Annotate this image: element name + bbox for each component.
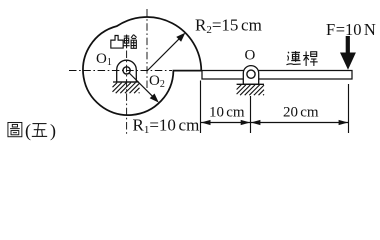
wire: vertical centerline through O2: [146, 9, 148, 88]
pin circle O1: [123, 67, 130, 74]
ground hatching under O: [236, 84, 238, 86]
force arrow F: [346, 36, 350, 54]
dimension line 10cm: [201, 122, 251, 124]
label lever (lian): [286, 51, 300, 65]
svg-text:): ): [50, 121, 56, 142]
dimension line 20cm: [251, 122, 349, 124]
R2 radius arrow: [147, 35, 183, 71]
wire: horizontal centerline through O1 and O2: [69, 70, 172, 72]
svg-text:20cm: 20cm: [283, 105, 319, 121]
lever bar (連桿): [202, 71, 352, 80]
svg-text:O: O: [245, 48, 256, 64]
caption figure (tu): [8, 122, 22, 136]
extension line at contact point: [200, 81, 202, 134]
label lever (gan): [303, 51, 318, 66]
extension line at force point: [348, 84, 350, 133]
svg-text:R2=15cm: R2=15cm: [195, 16, 262, 37]
pivot mount at O: [243, 66, 258, 85]
svg-text:10cm: 10cm: [209, 105, 245, 121]
ground line under O: [237, 83, 264, 85]
cam body (eccentric disc): [83, 17, 201, 115]
pivot mount at O1: [117, 60, 137, 82]
extension line at pivot O: [250, 96, 252, 133]
svg-text:(: (: [25, 121, 31, 142]
ground hatching under O1: [112, 82, 114, 84]
pin circle O: [247, 70, 255, 78]
svg-text:R1=10cm: R1=10cm: [133, 116, 200, 137]
label cam (lun): [123, 35, 136, 49]
svg-text:F=10N: F=10N: [326, 20, 376, 39]
R1 radius arrow: [129, 73, 157, 101]
caption five (wu): [32, 124, 47, 137]
label cam (tu): [111, 36, 123, 49]
ground line under O1: [113, 81, 139, 83]
wire: vertical centerline through O1: [126, 51, 128, 137]
